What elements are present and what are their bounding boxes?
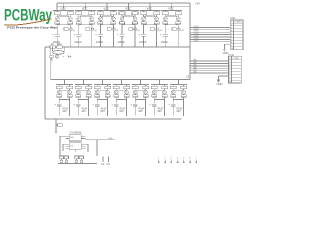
capacitor C26 <box>162 94 167 97</box>
capacitor C4 coupling <box>89 21 94 24</box>
capacitor C25 <box>152 94 157 97</box>
ground below left oscillator <box>50 58 53 62</box>
svg-text:+9V: +9V <box>195 2 200 6</box>
wire row2 stage 5 emitter join <box>135 97 145 100</box>
svg-text:4: 4 <box>177 158 178 160</box>
svg-text:100uF: 100uF <box>118 40 126 44</box>
wire CN2 pin 2 net <box>190 60 229 62</box>
transistor Q26 <box>163 90 167 94</box>
wire row2 stage 2 rail <box>75 83 92 85</box>
svg-text:OUT: OUT <box>108 138 113 140</box>
wire stage 2 emitter join <box>79 23 92 26</box>
wire CN1 pin 8 net <box>190 41 230 43</box>
wire row2 stage 6 coupling <box>154 89 164 91</box>
capacitor C16 <box>67 94 72 97</box>
capacitor C8 coupling <box>133 21 138 24</box>
ground below branch <box>55 131 58 133</box>
svg-text:Q12: Q12 <box>181 30 184 32</box>
label capacitor CE1 value <box>53 40 61 44</box>
capacitor C5 coupling <box>98 21 103 24</box>
resistor R29 <box>132 84 138 88</box>
label capacitor CE9 value <box>100 107 106 114</box>
wire U1 left pin bus <box>60 136 65 156</box>
resistor R34 <box>181 84 187 88</box>
capacitor CE1 electrolytic <box>52 34 60 47</box>
transistor Q4 <box>90 17 94 21</box>
wire row2 stage 4 rail <box>113 83 130 85</box>
capacitor C23 <box>133 94 138 97</box>
capacitor C12 coupling <box>176 21 181 24</box>
label capacitor CE5 value <box>139 40 147 44</box>
svg-text:Q2: Q2 <box>73 30 75 32</box>
wire row2 stage 3 rail <box>94 83 111 85</box>
wire row2 stage 1 rail <box>56 83 73 85</box>
resistor R4 <box>89 10 95 14</box>
resistor R8 <box>132 10 138 14</box>
wire row2 stage 3 coupling <box>97 89 107 91</box>
svg-text:GND: GND <box>217 82 223 86</box>
wire row2 stage 5 feed drop <box>140 79 141 85</box>
wire row2 stage 5 rail <box>132 83 149 85</box>
wire stage 4 second drop to rail <box>134 24 135 47</box>
ground for CN1 <box>223 44 231 55</box>
resistor R26 <box>105 84 111 88</box>
wire row2 stage 3 feed drop <box>102 79 103 85</box>
svg-text:16V: 16V <box>138 109 143 113</box>
wire stage 4 emitter join <box>122 23 135 26</box>
wire row2 stage 4 feed drop <box>121 79 122 85</box>
resistor R13 on left net <box>49 46 56 49</box>
label stage 5 rail net <box>147 7 153 11</box>
capacitor CE5 electrolytic <box>138 34 146 47</box>
transistor Q25 <box>152 90 156 94</box>
transistor Q1 <box>55 17 59 21</box>
label capacitor CE12 value <box>157 107 163 114</box>
svg-text:16V: 16V <box>62 109 67 113</box>
transistor Q23 <box>133 90 137 94</box>
net label second row bus <box>186 75 190 79</box>
wire stage 1 output drop <box>57 24 58 33</box>
net label CN1 pin 4 <box>194 31 199 33</box>
resistor R5 <box>97 10 103 14</box>
wire left vertical branch A <box>44 47 46 119</box>
svg-text:100uF: 100uF <box>161 40 169 44</box>
label transistor pair stage 3 <box>107 28 118 32</box>
buzzer LS1 ellipse <box>52 47 64 55</box>
svg-text:Q10: Q10 <box>159 30 162 32</box>
svg-text:VCC: VCC <box>60 7 66 11</box>
wire stage 5 collector rail <box>140 9 161 11</box>
resistor R15 <box>50 55 53 58</box>
net label CN2 pin 2 <box>194 60 197 62</box>
wire stage 4 feed drop from bus <box>128 2 129 10</box>
svg-text:VCC: VCC <box>147 7 153 11</box>
wire stage 3 feed drop from bus <box>106 2 107 10</box>
svg-text:VCC: VCC <box>82 7 88 11</box>
capacitor C22 <box>124 94 129 97</box>
label transistor pair stage 2 <box>86 28 97 32</box>
capacitor C30 <box>101 156 105 166</box>
label transistor pair stage 6 <box>172 28 184 32</box>
wire bottom rail of timer block <box>58 156 97 164</box>
logo swoosh underline <box>5 19 52 25</box>
wire CN2 pin 6 net <box>190 70 229 72</box>
wire row2 stage 4 emitter join <box>116 97 126 100</box>
svg-text:Q6: Q6 <box>116 30 118 32</box>
svg-text:2: 2 <box>164 158 165 160</box>
wire stage 6 output drop <box>165 24 166 33</box>
wire row2 stage 4 second drop <box>126 100 127 117</box>
label connector CN2 <box>229 53 235 57</box>
wire branch from ground bus to timer <box>55 118 56 131</box>
wire row2 stage 1 feed drop <box>64 79 65 85</box>
wire stage 6 feed drop from bus <box>171 2 172 10</box>
resistor R9 <box>141 10 147 14</box>
transistor Q11 <box>163 17 167 21</box>
net label CN2 pin 4 <box>194 64 197 66</box>
svg-text:16V: 16V <box>100 109 105 113</box>
net label CN2 pin 7 <box>194 72 197 74</box>
label U1 NE555 <box>70 131 83 135</box>
wire stage 4 cross-coupling <box>122 15 136 18</box>
led D5 <box>80 159 83 163</box>
wire row2 stage 3 second drop <box>107 100 108 117</box>
svg-text:10K: 10K <box>57 42 62 46</box>
port flag P3 <box>170 158 172 164</box>
capacitor C3 coupling <box>76 21 81 24</box>
capacitor CE10 electrolytic <box>111 100 118 116</box>
label capacitor CE11 value <box>138 107 144 114</box>
svg-text:Q4: Q4 <box>94 30 96 32</box>
transistor Q8 <box>133 17 137 21</box>
net label CN2 pin 5 <box>194 67 197 69</box>
svg-text:6: 6 <box>189 158 190 160</box>
connector CN1 body <box>230 20 243 50</box>
resistor R18 <box>64 156 68 159</box>
capacitor C15 <box>57 94 62 97</box>
wire stage 6 collector rail <box>161 9 182 11</box>
resistor R28 <box>124 84 130 88</box>
svg-text:C4: C4 <box>107 162 111 166</box>
wire stage 2 collector rail <box>75 9 96 11</box>
transistor Q16 <box>68 90 72 94</box>
wire row2 stage 2 coupling <box>78 89 88 91</box>
resistor R21 <box>56 84 62 88</box>
svg-text:VCC: VCC <box>103 7 109 11</box>
capacitor C21 <box>114 94 119 97</box>
svg-text:100uF: 100uF <box>74 40 82 44</box>
wire stage 3 second drop to rail <box>113 24 114 47</box>
led D3 <box>65 159 68 163</box>
wire row2 stage 2 feed drop <box>83 79 84 85</box>
wire row2 stage 6 feed drop <box>159 79 160 85</box>
svg-text:16V: 16V <box>176 109 181 113</box>
net label CN1 pin 3 <box>194 28 199 30</box>
wire CN1 pin 7 net <box>190 38 230 40</box>
capacitor CE8 electrolytic <box>73 100 80 116</box>
resistor R1 <box>54 10 60 14</box>
wire stage 1 second drop to rail <box>70 24 71 47</box>
wire CN2 pin 3 net <box>190 63 229 65</box>
svg-text:VCC: VCC <box>125 7 131 11</box>
wire CN1 pin 4 net <box>190 31 230 33</box>
capacitor CE4 electrolytic <box>117 34 125 47</box>
label capacitor CE13 value <box>176 107 182 114</box>
transistor Q9 <box>142 17 146 21</box>
wire stage 5 output drop <box>143 24 144 33</box>
transistor Q24 <box>144 90 148 94</box>
port flag P2 <box>164 158 166 164</box>
resistor R2 <box>67 10 73 14</box>
capacitor C24 <box>143 94 148 97</box>
wire stage 1 feed drop from bus <box>63 2 64 10</box>
label capacitor CE2 value <box>74 40 82 44</box>
wire CN1 pin 2 net <box>190 26 230 28</box>
port flag P1 <box>158 158 160 164</box>
wire second row power bus <box>51 79 190 81</box>
wire left vertical branch B <box>50 47 52 80</box>
transistor Q12 <box>176 17 180 21</box>
wire stage 2 cross-coupling <box>78 15 92 18</box>
resistor R11 <box>162 10 168 14</box>
wire CN2 pin 7 net <box>190 72 229 74</box>
svg-text:C3: C3 <box>101 162 105 166</box>
net label +9V top right <box>195 2 200 6</box>
capacitor C17 <box>76 94 81 97</box>
led D4 <box>75 159 78 163</box>
wire stage 3 output drop <box>100 24 101 33</box>
net label CN1 pin 6 <box>194 36 199 38</box>
ic U1 timer body <box>65 135 85 150</box>
wire stage 2 feed drop from bus <box>85 2 86 10</box>
resistor R19 <box>74 156 78 159</box>
transistor Q21 <box>114 90 118 94</box>
diode D1 <box>69 55 72 57</box>
wire CN1 pin 6 net <box>190 36 230 38</box>
wire row2 stage 1 coupling <box>59 89 69 91</box>
wire stage 5 cross-coupling <box>143 15 157 18</box>
svg-text:CON10: CON10 <box>234 22 242 24</box>
net label CN1 pin 2 <box>194 26 199 28</box>
svg-text:OUT7: OUT7 <box>194 40 199 42</box>
capacitor C19 <box>95 94 100 97</box>
transistor Q20 <box>106 90 110 94</box>
label transistor pair stage 4 <box>129 28 140 32</box>
wire stage 4 collector rail <box>118 9 139 11</box>
logo tagline PCB Prototype the Easy Way <box>7 25 57 29</box>
resistor R10 <box>154 10 160 14</box>
transistor Q27 <box>171 90 175 94</box>
svg-text:Q8: Q8 <box>137 30 139 32</box>
resistor R31 <box>151 84 157 88</box>
resistor R12 <box>175 10 181 14</box>
svg-text:U1 NE555: U1 NE555 <box>70 131 83 135</box>
resistor R6 <box>110 10 116 14</box>
connector CN2 body <box>229 56 242 83</box>
resistor R24 <box>86 84 92 88</box>
wire row2 stage 5 coupling <box>135 89 145 91</box>
wire second row ground bus <box>45 118 182 120</box>
wire CN2 pin 4 net <box>190 65 229 67</box>
wire stage 3 cross-coupling <box>100 15 114 18</box>
svg-text:100uF: 100uF <box>96 40 104 44</box>
capacitor C9 coupling <box>141 21 146 24</box>
wire CN1 pin 3 net <box>190 29 230 31</box>
label capacitor CE3 value <box>96 40 104 44</box>
label capacitor CE10 value <box>119 107 125 114</box>
wire CN2 pin 5 net <box>190 67 229 69</box>
wire stage 2 output drop <box>78 24 79 33</box>
capacitor C18 <box>86 94 91 97</box>
label capacitor CE4 value <box>118 40 126 44</box>
capacitor CE7 electrolytic <box>54 100 61 116</box>
wire CN1 pin 5 net <box>190 34 230 36</box>
net label CN1 pin 7 <box>194 38 199 40</box>
capacitor C6 coupling <box>111 21 116 24</box>
transistor Q7 <box>120 17 124 21</box>
label stage 3 rail net <box>103 7 109 11</box>
capacitor C10 coupling <box>154 21 159 24</box>
wire stage 1 cross-coupling <box>57 15 71 18</box>
resistor R33 <box>170 84 176 88</box>
transistor Q6 <box>112 17 116 21</box>
transistor Q19 <box>95 90 99 94</box>
transistor Q10 <box>155 17 159 21</box>
wire right vertical feed from top bus to second row bus <box>189 3 191 80</box>
svg-text:16V: 16V <box>119 109 124 113</box>
transistor Q15 <box>57 90 61 94</box>
svg-text:5: 5 <box>183 158 184 160</box>
wire row2 stage 1 second drop <box>69 100 70 117</box>
wire row2 stage 7 feed drop <box>178 79 179 85</box>
capacitor CE2 electrolytic <box>74 34 82 47</box>
ground for CN2 <box>217 76 229 86</box>
port flag P6 <box>189 158 191 164</box>
net label CN1 pin 8 <box>194 40 199 42</box>
wire stage 6 emitter join <box>165 23 178 26</box>
capacitor C1 coupling <box>55 21 60 24</box>
resistor R7 <box>119 10 125 14</box>
wire stage 3 collector rail <box>96 9 117 11</box>
label stage 2 rail net <box>82 7 88 11</box>
capacitor CE6 electrolytic <box>160 34 168 47</box>
svg-text:100uF: 100uF <box>139 40 147 44</box>
svg-text:PCBWay: PCBWay <box>4 6 52 25</box>
resistor R22 <box>67 84 73 88</box>
transistor Q18 <box>87 90 91 94</box>
capacitor C20 <box>105 94 110 97</box>
wire stage 3 emitter join <box>100 23 113 26</box>
label R13 R14 values <box>51 42 63 46</box>
led D2 <box>60 159 63 163</box>
capacitor C7 coupling <box>120 21 125 24</box>
wire top +9V power bus <box>57 3 190 10</box>
wire row2 stage 1 emitter join <box>59 97 69 100</box>
transistor Q22 <box>125 90 129 94</box>
resistor R17 <box>59 156 63 159</box>
wire row2 stage 6 rail <box>151 83 168 85</box>
transistor Q28 <box>182 90 186 94</box>
svg-text:V2: V2 <box>186 75 190 79</box>
wire stage 4 output drop <box>122 24 123 33</box>
resistor R32 <box>162 84 168 88</box>
transistor Q17 <box>76 90 80 94</box>
resistor R23 <box>75 84 81 88</box>
net label CN2 pin 3 <box>194 62 197 64</box>
wire row2 stage 3 emitter join <box>97 97 107 100</box>
resistor R14 on left net <box>57 46 66 49</box>
transistor Q5 <box>99 17 103 21</box>
resistor R27 <box>113 84 119 88</box>
logo PCBWay wordmark <box>4 6 52 25</box>
svg-text:1: 1 <box>158 158 159 160</box>
capacitor CE3 electrolytic <box>95 34 103 47</box>
wire row2 stage 2 second drop <box>88 100 89 117</box>
svg-text:PCB Prototype the Easy Way: PCB Prototype the Easy Way <box>7 25 57 29</box>
transistor Q3 <box>77 17 81 21</box>
svg-text:7: 7 <box>195 158 196 160</box>
svg-text:IN6: IN6 <box>194 72 197 74</box>
capacitor C2 coupling <box>68 21 73 24</box>
wire stage 6 cross-coupling <box>165 15 179 18</box>
capacitor C31 <box>107 156 111 166</box>
capacitor CE11 electrolytic <box>130 100 137 116</box>
capacitor C27 <box>171 94 176 97</box>
svg-text:16V: 16V <box>81 109 86 113</box>
resistor R30 <box>143 84 149 88</box>
label stage 1 rail net <box>60 7 66 11</box>
capacitor CE9 electrolytic <box>92 100 99 116</box>
wire row2 stage 2 emitter join <box>78 97 88 100</box>
label capacitor CE6 value <box>161 40 169 44</box>
wire top base bias bus <box>57 6 190 8</box>
wire row2 stage 7 second drop <box>183 100 184 117</box>
label transistor pair stage 5 <box>150 28 162 32</box>
wire stage 5 emitter join <box>144 23 157 26</box>
svg-text:CN1: CN1 <box>230 16 236 20</box>
wire row2 stage 6 emitter join <box>154 97 164 100</box>
label connector CN1 <box>230 16 236 20</box>
transistor Q13 <box>56 55 59 58</box>
svg-text:3: 3 <box>170 158 171 160</box>
wire stage 5 feed drop from bus <box>149 2 150 10</box>
label capacitor CE7 value <box>62 107 68 114</box>
resistor R20 <box>79 156 83 159</box>
label transistor pair stage 1 <box>64 28 75 32</box>
net label CN1 pin 5 <box>194 33 199 35</box>
capacitor C28 <box>181 94 186 97</box>
wire stage 2 second drop to rail <box>91 24 92 47</box>
wire row2 stage 7 rail <box>170 83 187 85</box>
wire stage 1 emitter join <box>57 23 70 26</box>
wire stage 6 second drop to rail <box>178 24 179 47</box>
resistor R3 <box>76 10 82 14</box>
svg-text:16V: 16V <box>157 109 162 113</box>
net label CN2 pin 6 <box>194 69 197 71</box>
resistor R25 <box>94 84 100 88</box>
wire stage 5 second drop to rail <box>156 24 157 47</box>
resistor R16 <box>56 124 62 127</box>
wire row2 stage 6 second drop <box>164 100 165 117</box>
svg-text:VCC: VCC <box>168 7 174 11</box>
label polarity plus <box>63 55 65 58</box>
wire U1 output net <box>85 138 115 156</box>
svg-text:CON9: CON9 <box>233 58 240 60</box>
capacitor CE12 electrolytic <box>149 100 156 116</box>
label capacitor CE8 value <box>81 107 87 114</box>
port flag P5 <box>183 158 185 164</box>
label stage 4 rail net <box>125 7 131 11</box>
